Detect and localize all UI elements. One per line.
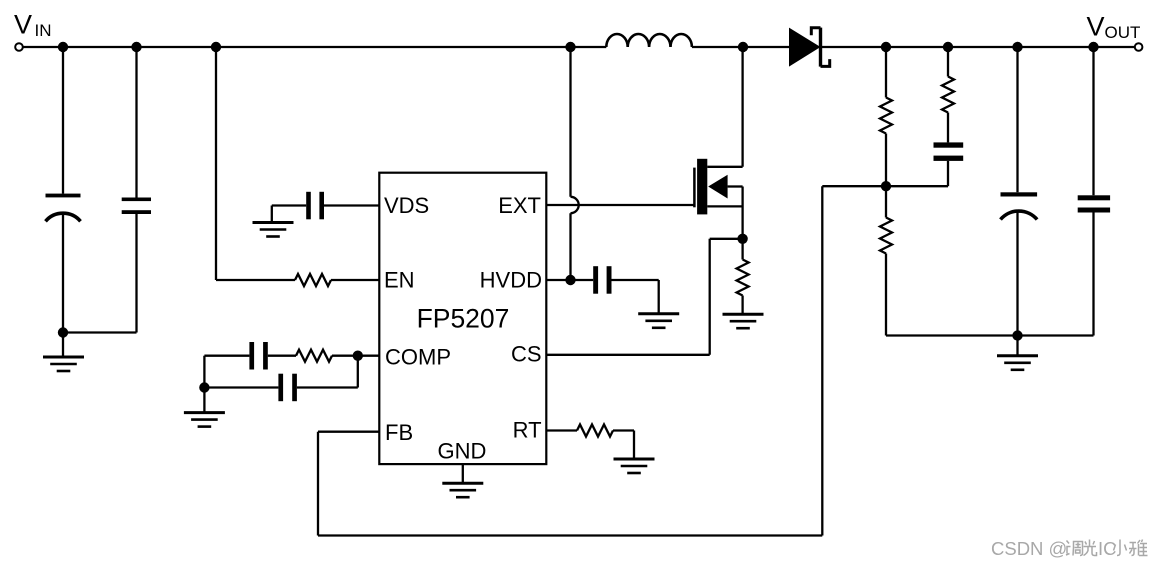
ground RT xyxy=(614,459,655,473)
wire rail inductor-to-diode xyxy=(692,46,789,48)
node FB divider junction xyxy=(881,181,891,191)
svg-text:CSDN @: CSDN @ xyxy=(991,538,1067,559)
ground VDS xyxy=(253,223,294,237)
svg-text:OUT: OUT xyxy=(1105,23,1141,42)
ground HVDD xyxy=(638,314,679,328)
node input gnd junction xyxy=(58,327,68,337)
capacitor C1 electrolytic input xyxy=(62,47,64,194)
node VIN terminal xyxy=(15,43,23,51)
capacitor C_VDS xyxy=(306,192,311,220)
wire rail diode-to-VOUT xyxy=(821,46,1135,48)
wire FB loop xyxy=(318,431,379,433)
svg-text:V: V xyxy=(14,9,32,39)
watermark char xiao xyxy=(1114,540,1127,556)
ground input xyxy=(62,333,64,358)
node HVDD junction xyxy=(565,275,575,285)
capacitor C_FF xyxy=(934,142,964,147)
wire C2 bottom to C1 bottom xyxy=(63,331,137,333)
wire output gnd bus xyxy=(886,334,1094,336)
ground CS xyxy=(723,314,764,328)
wire HVDD vertical from rail with hop xyxy=(569,47,571,197)
op-amp U1 FP5207 IC box xyxy=(379,173,546,464)
capacitor C4 electrolytic output xyxy=(1016,47,1018,192)
node VOUT terminal xyxy=(1135,43,1143,51)
node COMP junction xyxy=(353,351,363,361)
svg-text:VDS: VDS xyxy=(384,193,429,218)
capacitor C5 ceramic output xyxy=(1092,47,1094,195)
svg-text:CS: CS xyxy=(511,341,542,366)
svg-text:FB: FB xyxy=(385,420,413,445)
resistor R2 feedforward xyxy=(947,47,949,77)
watermark char diao xyxy=(1066,541,1071,556)
svg-text:IN: IN xyxy=(35,21,52,40)
wire COMP pin xyxy=(358,355,380,357)
resistor R3 divider bottom xyxy=(885,186,887,217)
capacitor C_COMP2 xyxy=(357,356,359,388)
resistor R_RT xyxy=(546,429,577,431)
svg-text:HVDD: HVDD xyxy=(480,267,542,292)
diode D1 schottky xyxy=(789,28,821,67)
node source junction xyxy=(737,234,747,244)
wire CS path xyxy=(710,238,743,240)
resistor R_CS xyxy=(741,239,743,260)
watermark CSDN xyxy=(991,538,1148,559)
label VIN xyxy=(14,9,52,40)
capacitor C2 ceramic input xyxy=(135,47,137,198)
svg-text:GND: GND xyxy=(438,438,487,463)
label VOUT xyxy=(1087,12,1141,43)
svg-text:RT: RT xyxy=(513,417,542,442)
transistor Q1 NMOS xyxy=(693,168,696,208)
svg-text:EXT: EXT xyxy=(498,193,541,218)
resistor R1 divider top xyxy=(885,47,887,98)
ground output xyxy=(1016,336,1018,356)
svg-text:V: V xyxy=(1087,12,1105,42)
svg-text:FP5207: FP5207 xyxy=(417,304,510,334)
watermark char guang xyxy=(1084,540,1097,556)
capacitor C_HVDD xyxy=(571,279,594,281)
watermark char ya xyxy=(1129,543,1137,556)
wire VDS pin xyxy=(324,204,379,206)
resistor R_EN xyxy=(295,274,331,286)
wire EN branch xyxy=(215,47,217,280)
node junction dots on input rail xyxy=(58,42,1099,52)
svg-text:COMP: COMP xyxy=(385,345,451,370)
resistor R_COMP xyxy=(296,350,332,362)
capacitor C_COMP1 xyxy=(249,342,254,370)
ground COMP xyxy=(184,413,225,427)
wire FB node to C_FF xyxy=(886,185,948,187)
node output gnd junction xyxy=(1012,330,1022,340)
svg-text:EN: EN xyxy=(384,267,415,292)
ground IC GND pin xyxy=(462,464,464,483)
wire EXT to gate xyxy=(546,204,694,206)
wire top rail left xyxy=(23,46,607,48)
inductor L1 xyxy=(606,34,692,47)
node COMP gnd junction xyxy=(199,382,209,392)
